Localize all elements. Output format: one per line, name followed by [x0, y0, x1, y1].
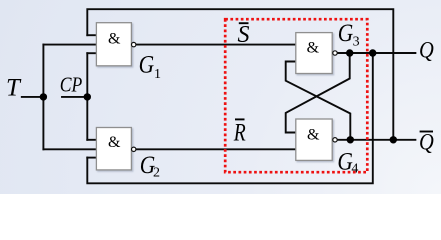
svg-text:1: 1	[154, 67, 161, 82]
svg-text:G: G	[139, 51, 155, 78]
svg-text:&: &	[307, 127, 320, 144]
svg-text:CP: CP	[60, 72, 83, 96]
svg-text:T: T	[6, 75, 22, 102]
svg-text:4: 4	[351, 162, 358, 177]
svg-text:Q: Q	[419, 37, 434, 62]
svg-text:&: &	[108, 134, 121, 151]
svg-text:S: S	[238, 22, 250, 48]
svg-text:&: &	[307, 40, 320, 57]
svg-text:Q: Q	[419, 130, 434, 155]
svg-text:3: 3	[353, 35, 360, 50]
svg-text:2: 2	[153, 166, 160, 181]
svg-text:R: R	[233, 120, 246, 147]
svg-text:&: &	[108, 31, 121, 48]
svg-text:G: G	[338, 20, 354, 47]
